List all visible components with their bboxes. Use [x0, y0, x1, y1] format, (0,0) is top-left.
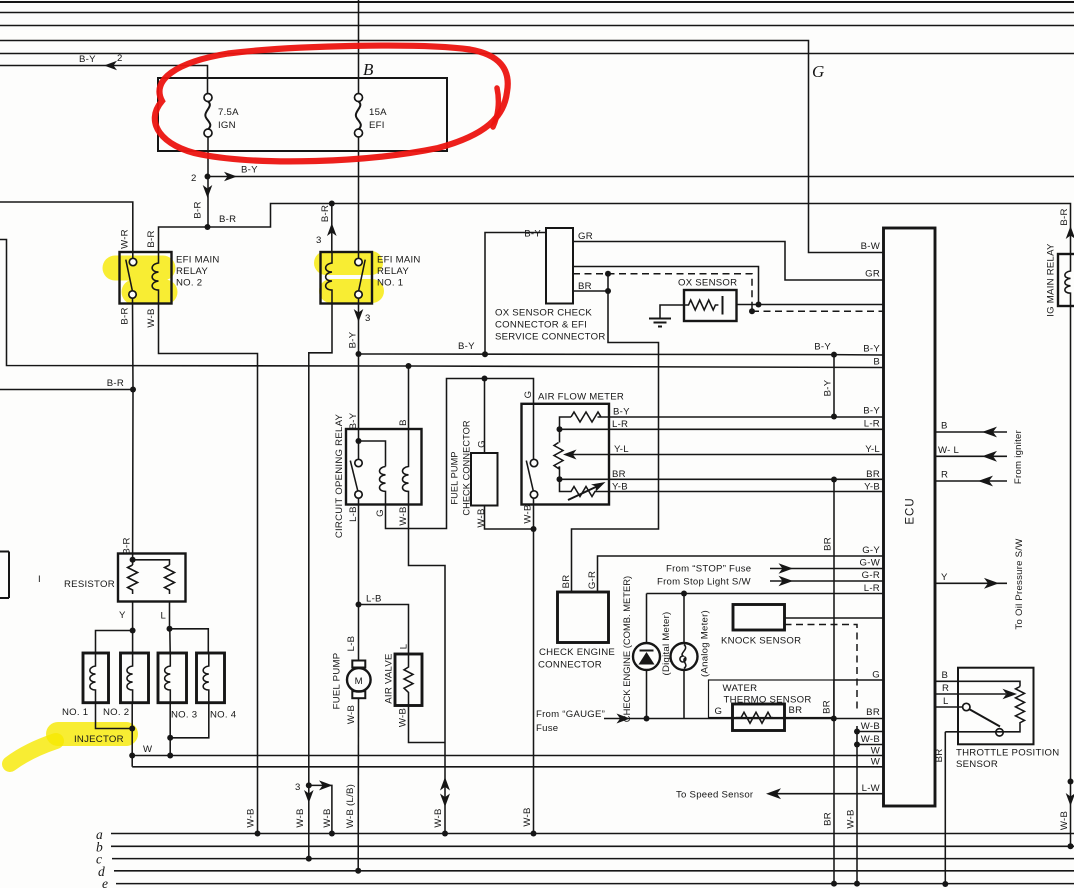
resistor block	[64, 554, 186, 602]
svg-text:EFI MAIN: EFI MAIN	[176, 255, 220, 266]
partial component box at left page edge	[0, 552, 9, 599]
injector NO.4	[197, 653, 237, 721]
svg-text:B-Y: B-Y	[613, 407, 630, 418]
highlighter yellow on EFI main relay No.2	[115, 268, 165, 292]
arrow B-Y pointing left	[104, 61, 117, 71]
node junction BR at AFM line	[831, 477, 837, 483]
svg-text:ECU: ECU	[905, 497, 917, 524]
svg-text:B-Y: B-Y	[823, 379, 834, 396]
wire bus line e	[116, 883, 1074, 885]
svg-text:CHECK ENGINE (COMB. METER): CHECK ENGINE (COMB. METER)	[621, 576, 632, 722]
SECTION: fusebox	[158, 0, 1074, 254]
wire GR from OX connector to ECU	[573, 242, 884, 281]
node junction BR at thermo	[831, 716, 837, 722]
svg-text:Fuse: Fuse	[536, 723, 558, 734]
arrow left speed sensor	[766, 788, 781, 799]
node junction B-R at relay1 coil	[329, 201, 335, 207]
wire top bus line 1	[0, 1, 1074, 3]
svg-text:W- L: W- L	[938, 445, 959, 456]
svg-text:NO. 2: NO. 2	[103, 707, 129, 718]
svg-text:GR: GR	[578, 231, 593, 242]
svg-text:G: G	[523, 391, 534, 399]
svg-text:From igniter: From igniter	[1013, 429, 1024, 484]
arrow down below 3 junction	[304, 790, 314, 803]
wire relay1 coil down to long drop	[309, 304, 332, 859]
svg-text:SERVICE CONNECTOR: SERVICE CONNECTOR	[495, 332, 606, 343]
svg-text:B-Y: B-Y	[863, 406, 880, 417]
svg-text:G-W: G-W	[860, 558, 881, 569]
svg-text:W: W	[143, 744, 153, 755]
svg-text:15A: 15A	[369, 107, 387, 118]
sensor OX SENSOR	[678, 278, 884, 322]
wire From Stop Light SW to ECU	[770, 580, 884, 582]
svg-text:Y: Y	[119, 610, 126, 621]
sensor WATER THERMO SENSOR	[709, 680, 834, 731]
svg-text:NO. 3: NO. 3	[171, 710, 197, 721]
arrow down W-B right	[1066, 793, 1074, 806]
node junction BR on e	[831, 881, 837, 887]
node junction on W-B right line	[1068, 779, 1074, 785]
wire To Speed Sensor	[775, 793, 884, 795]
svg-text:W-B (L/B): W-B (L/B)	[345, 784, 356, 828]
node junction afm drop on a	[531, 831, 537, 837]
svg-text:e: e	[102, 876, 108, 888]
node junction B-R stub	[130, 387, 136, 393]
svg-text:W-B: W-B	[146, 308, 157, 327]
svg-text:From “GAUGE”: From “GAUGE”	[536, 709, 605, 720]
wire dashed knock sensor shield	[785, 625, 858, 714]
wire W line 2 to ECU	[132, 766, 883, 768]
svg-text:W-B: W-B	[246, 808, 257, 827]
wire B-Y bus to ECU	[359, 354, 884, 355]
arrow left igniter W-L	[982, 451, 997, 462]
fuse 7.5A IGN	[204, 94, 239, 138]
svg-text:B-Y: B-Y	[348, 331, 359, 348]
svg-text:2: 2	[117, 53, 123, 64]
node junction W-B relay2 on a	[255, 831, 261, 837]
svg-text:WATER: WATER	[723, 683, 758, 694]
connector FUEL PUMP CHECK CONNECTOR	[450, 379, 534, 530]
svg-text:CHECK CONNECTOR: CHECK CONNECTOR	[462, 420, 472, 516]
svg-text:BR: BR	[789, 705, 803, 716]
wire W-B air valve joining drop	[409, 706, 446, 743]
node junction W line 1	[129, 753, 135, 759]
svg-text:B: B	[398, 419, 409, 426]
svg-text:RELAY: RELAY	[377, 266, 409, 277]
relay CIRCUIT OPENING RELAY	[334, 354, 422, 538]
node junction L-B	[356, 602, 362, 608]
svg-text:BR: BR	[823, 537, 834, 551]
arrow up on relay1 coil feed	[327, 223, 337, 236]
svg-text:W-B: W-B	[322, 808, 333, 827]
valve AIR VALVE	[384, 653, 423, 705]
svg-text:(Digital Meter): (Digital Meter)	[661, 612, 672, 676]
svg-text:L-B: L-B	[348, 506, 359, 522]
wire B-R to relay2 coil	[159, 227, 208, 252]
svg-text:L-B: L-B	[346, 636, 357, 652]
svg-text:FUEL PUMP: FUEL PUMP	[332, 653, 343, 710]
node junction fuel pump on d	[355, 868, 361, 874]
svg-text:W-B: W-B	[346, 705, 357, 724]
relay EFI MAIN RELAY NO.2	[120, 252, 220, 304]
svg-text:W-B: W-B	[861, 721, 880, 732]
svg-text:CHECK ENGINE: CHECK ENGINE	[539, 647, 615, 658]
wire R from igniter	[935, 480, 1007, 482]
svg-text:W-B: W-B	[846, 809, 857, 828]
node junction injectors 1-2	[129, 726, 135, 732]
SECTION: relays	[0, 137, 884, 859]
arrow down on B-R below fuse	[203, 185, 213, 198]
wire B-Y vertical to ECU pin	[833, 355, 835, 417]
svg-text:W-B: W-B	[398, 506, 409, 525]
svg-text:W-B: W-B	[433, 808, 444, 827]
node B-R junction	[205, 224, 211, 230]
arrow right from 3 junction	[319, 780, 333, 790]
arrow B-Y branch pointing right	[224, 172, 237, 182]
svg-text:L: L	[398, 643, 409, 649]
sensor THROTTLE POSITION SENSOR	[935, 668, 1059, 770]
wire comb meter top to ECU L-R	[647, 593, 884, 595]
wire B-R fuse EFI down to relay1 switch	[358, 137, 360, 259]
svg-text:KNOCK SENSOR: KNOCK SENSOR	[721, 636, 801, 647]
svg-text:BR: BR	[612, 469, 626, 480]
svg-text:To Oil Pressure S/W: To Oil Pressure S/W	[1014, 538, 1025, 630]
svg-text:CONNECTOR: CONNECTOR	[538, 660, 602, 671]
svg-text:B-R: B-R	[120, 307, 131, 324]
arrow left igniter R	[978, 476, 993, 487]
node junction IG W-B on b	[1068, 843, 1074, 849]
pump FUEL PUMP	[332, 653, 371, 710]
red pen circle around fuse box	[155, 46, 508, 162]
svg-text:RESISTOR: RESISTOR	[64, 579, 115, 590]
wire B-R relay2 switch down to resistor	[132, 298, 135, 560]
svg-text:Y-L: Y-L	[865, 444, 880, 455]
SECTION: bottom	[96, 780, 1074, 888]
wire W line 1 to ECU	[132, 755, 883, 757]
SECTION: ecu	[676, 228, 1074, 884]
svg-text:R: R	[942, 683, 949, 694]
svg-text:I: I	[38, 574, 41, 585]
svg-text:B-R: B-R	[1059, 208, 1070, 225]
node junction 3 on B-R drop	[306, 782, 312, 788]
injector NO.3	[158, 653, 197, 721]
svg-text:W-B: W-B	[522, 807, 533, 826]
svg-text:Y: Y	[941, 572, 948, 583]
relay IG MAIN RELAY	[1046, 243, 1074, 317]
svg-text:B: B	[942, 670, 949, 681]
node junction analog meter top	[681, 591, 687, 597]
svg-text:M: M	[355, 676, 363, 687]
svg-text:B-Y: B-Y	[241, 165, 258, 176]
wire W-L from igniter	[935, 455, 1007, 457]
wire B-Y relay1 switch down to bus	[358, 298, 360, 354]
svg-text:(Analog Meter): (Analog Meter)	[700, 610, 711, 677]
svg-text:G: G	[477, 440, 488, 448]
SECTION: top bus lines	[0, 2, 1074, 253]
wire Y to oil pressure switch	[935, 582, 1007, 584]
svg-text:G-R: G-R	[587, 571, 598, 589]
svg-text:GR: GR	[865, 269, 880, 280]
svg-text:B-Y: B-Y	[79, 54, 96, 65]
svg-text:L-R: L-R	[864, 419, 880, 430]
wire B-R stub from left edge	[0, 389, 133, 391]
svg-text:W-B: W-B	[295, 808, 306, 827]
svg-text:B-W: B-W	[861, 241, 881, 252]
svg-text:B-Y: B-Y	[863, 344, 880, 355]
svg-text:B-R: B-R	[146, 230, 157, 247]
ECU box	[884, 228, 936, 806]
svg-text:W-R: W-R	[120, 229, 131, 249]
svg-text:W-B: W-B	[1059, 811, 1070, 830]
svg-text:B-R: B-R	[320, 205, 331, 222]
node junction B-Y at relay1	[356, 351, 362, 357]
node junction injectors 3-4	[167, 735, 173, 741]
svg-text:B-Y: B-Y	[458, 341, 475, 352]
svg-text:INJECTOR: INJECTOR	[74, 734, 124, 745]
svg-text:W-B: W-B	[861, 734, 880, 745]
svg-text:B: B	[363, 60, 374, 79]
wire L resistor to injectors 3,4	[170, 602, 209, 654]
wire bus line b	[111, 845, 1074, 847]
svg-text:2: 2	[191, 173, 197, 184]
arrow left igniter B	[982, 427, 997, 438]
node junction branch on a	[329, 831, 335, 837]
meter AIR FLOW METER	[522, 391, 884, 505]
svg-text:W: W	[871, 746, 881, 757]
node junction air valve drop on a	[442, 831, 448, 837]
svg-text:L-W: L-W	[862, 783, 881, 794]
meter CHECK ENGINE (COMB. METER) digital	[621, 576, 672, 722]
node junction B at COR coil2	[406, 363, 412, 369]
svg-text:BR: BR	[822, 700, 833, 714]
node junction B-Y at OX connector drop	[482, 351, 488, 357]
svg-text:To Speed Sensor: To Speed Sensor	[676, 790, 754, 801]
node junction G at FP check connector	[482, 376, 488, 382]
node junction B-R drop on c	[306, 856, 312, 862]
svg-text:G: G	[375, 509, 386, 517]
highlighter yellow on INJECTOR	[58, 722, 126, 746]
wire W-R from left edge to relay2 switch	[0, 202, 133, 258]
wire top bus line 5	[0, 53, 1074, 55]
ground at OX sensor	[649, 305, 684, 327]
arrow right gauge	[617, 714, 631, 724]
wire G net: COR coil1 to AFM and FP check connector	[386, 379, 534, 529]
svg-text:BR: BR	[866, 707, 880, 718]
connector OX SENSOR CHECK	[485, 228, 606, 354]
svg-text:B: B	[873, 357, 880, 368]
node junction L	[167, 626, 173, 632]
svg-text:W-B: W-B	[397, 708, 408, 727]
svg-text:BR: BR	[561, 575, 572, 589]
wire G thermo to ECU	[834, 679, 884, 681]
wire B-R drop to relay1 coil	[331, 204, 333, 253]
svg-text:G-R: G-R	[862, 570, 880, 581]
svg-text:BR: BR	[934, 749, 945, 763]
node junction W-B on e	[854, 881, 860, 887]
wire L-B switch to fuel pump	[358, 498, 360, 661]
svg-text:W-B: W-B	[523, 504, 534, 523]
wire W-B COR coil2 down	[409, 505, 446, 834]
wire From GAUGE fuse line	[604, 718, 884, 720]
svg-text:BR: BR	[823, 812, 834, 826]
svg-text:L: L	[943, 696, 949, 707]
svg-text:THERMO SENSOR: THERMO SENSOR	[724, 695, 812, 706]
node junction TPS BR on e	[942, 881, 948, 887]
SECTION: annotations	[155, 46, 508, 162]
svg-text:B-Y: B-Y	[814, 341, 831, 352]
node junction B-Y at ECU pin	[831, 352, 837, 358]
svg-text:R: R	[941, 470, 948, 481]
svg-text:NO. 1: NO. 1	[62, 707, 88, 718]
wire From STOP fuse to ECU	[770, 568, 884, 570]
svg-text:G-Y: G-Y	[862, 545, 880, 556]
wire BR vertical ECU drop to bottom	[833, 480, 835, 884]
svg-text:EFI: EFI	[369, 120, 385, 131]
svg-text:OX SENSOR: OX SENSOR	[678, 278, 737, 289]
svg-text:BR: BR	[866, 469, 880, 480]
svg-text:OX SENSOR CHECK: OX SENSOR CHECK	[495, 308, 592, 319]
wire bus line c	[112, 858, 1074, 860]
wire W-B relay2 coil down and over	[159, 304, 258, 834]
fuse box B	[158, 78, 447, 151]
highlighter yellow on EFI main relay No.1	[326, 263, 372, 291]
wire branch from 3 junction to line a	[309, 785, 332, 833]
svg-text:IG MAIN RELAY: IG MAIN RELAY	[1046, 243, 1057, 317]
svg-text:L-B: L-B	[366, 594, 382, 605]
connector CHECK ENGINE CONNECTOR	[538, 571, 615, 671]
svg-text:B-R: B-R	[219, 214, 236, 225]
svg-text:B-Y: B-Y	[348, 412, 359, 429]
svg-text:FUEL PUMP: FUEL PUMP	[450, 451, 460, 504]
injector NO.2	[103, 653, 149, 718]
wire unlabeled from OX connector to sensor line	[573, 267, 759, 305]
svg-text:L-R: L-R	[864, 583, 880, 594]
highlighter yellow injector tail	[10, 741, 56, 764]
svg-text:B-R: B-R	[122, 537, 133, 554]
wire Y resistor to injectors 1,2	[96, 602, 133, 654]
node junction Y	[130, 628, 136, 634]
wire G-R from check engine connector to ECU G-Y	[598, 556, 884, 592]
wire B-R from fuse IGN down	[207, 137, 209, 227]
svg-text:B-Y: B-Y	[524, 229, 541, 240]
wire injector 3,4 commons	[170, 703, 209, 756]
svg-text:From “STOP” Fuse: From “STOP” Fuse	[666, 564, 751, 575]
wire injector 1,2 commons	[96, 703, 133, 767]
wire B net from left edge to ECU	[0, 240, 884, 368]
arrow right Stop Light	[779, 576, 794, 586]
svg-text:W-B: W-B	[476, 508, 487, 527]
svg-text:3: 3	[295, 782, 301, 793]
svg-text:G: G	[812, 62, 824, 81]
svg-text:7.5A: 7.5A	[218, 107, 239, 118]
injector NO.1	[62, 653, 109, 718]
node junction 2 below fuse	[205, 174, 211, 180]
svg-text:RELAY: RELAY	[176, 266, 208, 277]
svg-text:B: B	[941, 421, 948, 432]
svg-text:CIRCUIT OPENING RELAY: CIRCUIT OPENING RELAY	[334, 414, 345, 539]
relay EFI MAIN RELAY NO.1	[321, 252, 421, 304]
svg-text:B-R: B-R	[193, 201, 204, 218]
node junction W-B stubs	[854, 729, 860, 735]
svg-text:From Stop Light S/W: From Stop Light S/W	[657, 577, 751, 588]
svg-text:THROTTLE POSITION: THROTTLE POSITION	[956, 748, 1059, 759]
arrow up-down pair on W-B drop	[440, 777, 450, 807]
wire net G: bus line 4 turning down to ECU pin B-W	[0, 41, 884, 253]
arrow right STOP	[779, 563, 794, 573]
wire B-Y branch running right full width	[208, 176, 1074, 178]
svg-text:G: G	[872, 670, 880, 681]
sensor KNOCK SENSOR	[721, 605, 801, 647]
svg-text:NO. 4: NO. 4	[210, 710, 237, 721]
wire W-B from AFM to bottom bus	[533, 498, 535, 834]
wire BR from TPS to line e	[944, 732, 946, 884]
svg-text:EFI MAIN: EFI MAIN	[377, 255, 421, 266]
svg-text:B-R: B-R	[107, 378, 124, 389]
node junction W-B below AFM	[531, 526, 537, 532]
wire top bus line 3	[0, 25, 1074, 27]
svg-text:W: W	[871, 757, 881, 768]
wire B-R distribution to relay1 coil and IG main relay	[208, 204, 1071, 255]
svg-text:IGN: IGN	[218, 120, 236, 131]
svg-text:3: 3	[316, 235, 322, 246]
svg-text:L-R: L-R	[612, 419, 628, 430]
node junction BR	[605, 288, 611, 294]
svg-text:CONNECTOR & EFI: CONNECTOR & EFI	[495, 320, 587, 331]
svg-text:AIR FLOW METER: AIR FLOW METER	[538, 392, 624, 403]
fuse 15A EFI	[355, 0, 388, 137]
svg-text:Y-B: Y-B	[612, 482, 628, 493]
wire L branch to air valve	[359, 605, 409, 655]
wire top bus line 2	[0, 12, 1074, 14]
wire W-B pair stubs to ECU	[857, 726, 884, 884]
wire BR from OX connector down to check engine connector	[572, 274, 659, 592]
svg-text:Y-B: Y-B	[864, 482, 880, 493]
arrow up on IG main relay feed	[1066, 226, 1074, 239]
node junction on dashed line	[605, 271, 611, 277]
wire bus line d	[114, 870, 1074, 872]
arrow down B-Y relay1	[354, 309, 364, 322]
svg-text:Y-L: Y-L	[614, 444, 629, 455]
meter analog lamp	[671, 594, 711, 719]
svg-text:G: G	[715, 706, 723, 717]
svg-text:AIR VALVE: AIR VALVE	[384, 653, 395, 703]
node junction digital meter bottom	[644, 716, 650, 722]
SECTION: center	[10, 228, 884, 884]
wire bus line a	[111, 833, 1074, 835]
svg-text:NO. 1: NO. 1	[377, 278, 403, 289]
wire B-Y feed to fuse box	[0, 66, 208, 94]
wire dashed service connector to ECU	[573, 274, 884, 312]
red pen tail stroke	[493, 88, 498, 127]
wire B from igniter	[935, 431, 1007, 433]
wire W-B IG relay down to line b	[1070, 306, 1072, 846]
wire knock sensor to ECU	[785, 617, 884, 619]
svg-text:SENSOR: SENSOR	[956, 759, 998, 770]
arrow right oil pressure	[984, 578, 999, 589]
wire W-B fuel pump to line d	[357, 698, 359, 871]
svg-text:NO. 2: NO. 2	[176, 278, 202, 289]
svg-text:L: L	[161, 611, 167, 622]
svg-text:3: 3	[365, 313, 371, 324]
